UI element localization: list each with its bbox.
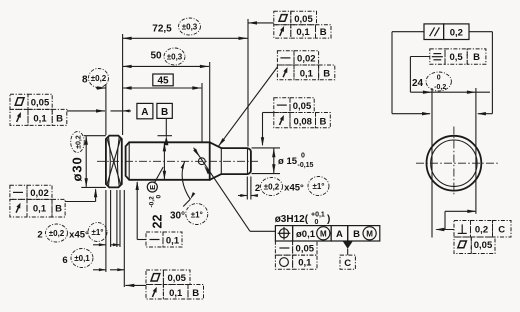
tolerance circle 50: [164, 48, 185, 65]
svg-text:±0,2: ±0,2: [75, 135, 82, 149]
svg-text:M: M: [320, 230, 327, 239]
feature frame straightness 0.02 runout 0.1 B: [277, 51, 294, 65]
svg-text:±0,2: ±0,2: [264, 183, 280, 192]
symmetry frame 0.5 B: [430, 49, 445, 64]
leader from left frame to flange bottom face: [65, 201, 96, 203]
svg-text:6: 6: [62, 255, 67, 266]
roundness 0.1 frame for hole: [275, 255, 292, 269]
extension line cylinder face lower: [123, 190, 125, 287]
datum triangle C under position frame: [343, 241, 353, 249]
svg-text:B: B: [323, 68, 330, 79]
datum box A: [137, 103, 153, 118]
svg-text:0,1: 0,1: [296, 27, 310, 38]
leader from frame 2 to cone: [218, 67, 277, 146]
tolerance circle plus-minus 1deg: [186, 204, 208, 225]
feature frame straightness 0.05 runout 0.08 B: [274, 98, 290, 113]
svg-text:±0,2: ±0,2: [91, 74, 107, 83]
svg-text:24: 24: [412, 78, 424, 89]
dimension 2x45 left arrows: [93, 244, 106, 246]
extension line cylinder end: [209, 62, 211, 142]
svg-text:C: C: [498, 224, 505, 235]
svg-text:30°: 30°: [170, 211, 185, 222]
tolerance circle plus-minus 0.2 for o30: [71, 132, 85, 153]
parallelism right leader: [469, 31, 492, 33]
svg-text:±0,1: ±0,1: [74, 254, 90, 263]
dimension o30 line with arrows: [85, 136, 87, 187]
svg-text:0,05: 0,05: [474, 240, 493, 251]
flange flat cross lines: [107, 139, 121, 184]
svg-text:50: 50: [150, 51, 162, 62]
svg-text:ø0,1: ø0,1: [296, 229, 316, 240]
dimension 45 line: [123, 87, 202, 89]
svg-text:0,2: 0,2: [450, 28, 463, 39]
perpendicularity leader to flats: [436, 229, 454, 231]
svg-text:0,1: 0,1: [169, 288, 183, 299]
main view axis centerline: [97, 160, 258, 162]
svg-text:±1°: ±1°: [191, 210, 203, 219]
svg-text:B: B: [319, 116, 326, 127]
svg-text:8: 8: [82, 74, 88, 85]
svg-text:±0,3: ±0,3: [182, 23, 198, 32]
svg-text:0,02: 0,02: [297, 54, 316, 65]
svg-text:72,5: 72,5: [152, 24, 172, 35]
svg-text:±0,2: ±0,2: [49, 229, 65, 238]
svg-text:ø 15: ø 15: [278, 156, 298, 167]
tolerance circle 24: [426, 72, 451, 91]
dimension 6 arrows: [93, 269, 106, 271]
shaft flange with flats outline: [106, 136, 122, 188]
side view horizontal centerline: [416, 162, 499, 164]
side view left flat line: [431, 88, 433, 238]
svg-text:B: B: [55, 204, 62, 215]
svg-text:+0,1: +0,1: [311, 212, 325, 219]
extension line shaft right end upper: [247, 19, 249, 147]
svg-text:-0,2: -0,2: [149, 196, 156, 208]
leader from straightness frame to cylinder bottom: [137, 239, 146, 241]
svg-text:0: 0: [156, 195, 163, 199]
tolerance circle 6: [71, 249, 93, 268]
extension line flange inner lower 1: [110, 190, 112, 247]
feature frame flatness 0.05 runout 0.1 B (bottom): [146, 270, 163, 285]
extension line left face lower: [105, 190, 107, 272]
svg-text:0,1: 0,1: [33, 204, 47, 215]
side view vertical centerline: [453, 127, 455, 197]
svg-text:±1°: ±1°: [312, 182, 324, 191]
dimension 72.5 line: [123, 37, 248, 39]
datum box B: [157, 103, 172, 118]
extension lines right chamfer: [246, 177, 248, 200]
svg-text:0,05: 0,05: [293, 101, 312, 112]
svg-text:0,05: 0,05: [167, 273, 186, 284]
dimension 2x45 right arrows: [238, 195, 247, 197]
symmetry leader to 24 dimension: [410, 56, 429, 58]
svg-text:0: 0: [315, 219, 319, 226]
dimension o15 line with arrows: [273, 148, 275, 174]
parallelism frame 0.2: [424, 24, 444, 40]
svg-text:22: 22: [151, 215, 165, 229]
extension line flange right lower: [119, 190, 121, 247]
svg-text:0,1: 0,1: [166, 235, 180, 246]
datum box C: [340, 255, 355, 269]
tolerance circle 1deg right chamfer: [308, 177, 329, 196]
tolerance circle 8: [89, 69, 109, 88]
dimension o22 line with arrows: [163, 143, 165, 180]
svg-text:±0,3: ±0,3: [167, 53, 183, 62]
svg-text:2: 2: [255, 183, 260, 194]
svg-text:M: M: [366, 230, 373, 239]
svg-text:0,08: 0,08: [293, 116, 312, 127]
svg-text:ø3H12(: ø3H12(: [275, 214, 309, 225]
envelope symbol E circle: [147, 182, 157, 192]
svg-text:B: B: [353, 229, 360, 240]
svg-text:): ): [327, 214, 330, 225]
hole axis line 30deg with leader to position frame: [194, 148, 250, 232]
dimension 24 line: [410, 91, 490, 93]
tolerance circle 0.2 left chamfer: [46, 224, 68, 242]
tolerance circle 72.5: [179, 18, 201, 35]
svg-text:A: A: [141, 107, 148, 118]
svg-text:-0,2: -0,2: [434, 84, 446, 91]
svg-text:B: B: [320, 27, 327, 38]
feature frame flatness 0.05 runout 0.1 B (top): [274, 11, 291, 25]
perpendicularity frame 0.2 C: [454, 221, 471, 238]
svg-text:0: 0: [301, 153, 305, 160]
svg-text:0,1: 0,1: [33, 114, 47, 125]
feature frame flatness 0.05 runout 0.1 B (top left): [10, 94, 28, 109]
svg-text:B: B: [161, 107, 168, 118]
svg-text:B: B: [473, 52, 480, 63]
svg-text:E: E: [148, 185, 157, 190]
leader from bottom frame to cylinder face ext: [125, 284, 146, 286]
svg-text:45: 45: [157, 76, 169, 87]
label 22 0/-0.2 rotated: [149, 195, 165, 229]
svg-text:0,1: 0,1: [298, 258, 312, 269]
svg-text:0,5: 0,5: [449, 52, 463, 63]
straightness 0.05 frame for hole: [275, 241, 292, 255]
svg-text:0,05: 0,05: [31, 98, 50, 109]
svg-text:0,1: 0,1: [300, 68, 314, 79]
parallelism left leader: [392, 31, 424, 33]
label 45 boxed: [153, 74, 173, 86]
svg-text:0: 0: [437, 75, 441, 82]
flange chamfer arcs: [109, 137, 111, 186]
30deg angle dimension arc: [182, 161, 190, 199]
svg-text:0,05: 0,05: [294, 14, 313, 25]
side view outer circle: [427, 136, 482, 191]
svg-text:2: 2: [37, 230, 42, 241]
tolerance circle 1deg left chamfer: [88, 223, 107, 242]
feature frame straightness 0.02 runout 0.1 B (left): [10, 185, 27, 199]
svg-text:-0,15: -0,15: [298, 162, 314, 169]
cross hole circle o3: [198, 158, 205, 165]
dimension 8 arrows: [96, 87, 106, 89]
extension line hole position: [201, 83, 203, 142]
feature frame straightness 0.1: [146, 232, 163, 247]
leader from top left frame to flange left face: [67, 110, 105, 112]
svg-text:B: B: [56, 114, 63, 125]
extension line left face of flange upper: [105, 84, 107, 135]
datum B leader to o30 extension line: [165, 118, 167, 136]
svg-text:C: C: [344, 258, 351, 269]
svg-text:B: B: [192, 288, 199, 299]
leader from frame 3 to o15 cylinder: [263, 112, 274, 114]
dimension o15 extension lines: [252, 147, 281, 149]
leader from top frame to right end: [248, 22, 274, 24]
position feature frame o0.1 M A B M: [275, 226, 292, 241]
side view right flat line: [475, 88, 477, 214]
svg-text:A: A: [336, 229, 343, 240]
svg-text:x45°: x45°: [69, 230, 89, 241]
flatness frame 0.05 side view: [454, 237, 471, 254]
small cylinder outline (o15): [221, 148, 251, 174]
extension line flange inner lower 2: [116, 190, 118, 247]
svg-text:0,2: 0,2: [475, 224, 488, 235]
svg-text:ø30: ø30: [70, 156, 85, 181]
tolerance circle 0.2 right chamfer: [261, 178, 283, 196]
svg-text:±1°: ±1°: [91, 228, 103, 237]
svg-text:0,02: 0,02: [30, 188, 49, 199]
dimension 50 line: [123, 65, 209, 67]
side view inner circle: [431, 140, 477, 186]
svg-text:x45°: x45°: [284, 183, 304, 194]
cone transition outline: [210, 142, 222, 148]
main cylinder outline (o22): [126, 142, 210, 180]
svg-text:0,05: 0,05: [296, 244, 315, 255]
extension line flange right face upper: [122, 34, 124, 135]
